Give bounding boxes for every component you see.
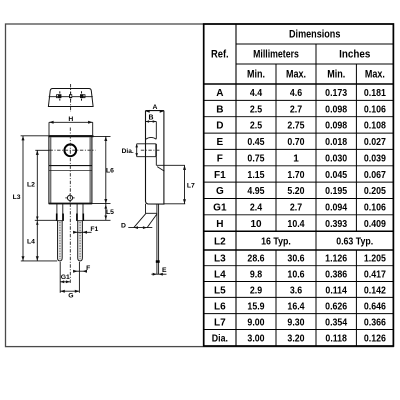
svg-text:4.95: 4.95 bbox=[247, 186, 265, 197]
svg-text:0.393: 0.393 bbox=[325, 219, 347, 230]
svg-text:15.9: 15.9 bbox=[247, 301, 265, 312]
front view inner edge lines bbox=[51, 137, 90, 203]
dimension H line bbox=[49, 121, 93, 135]
dimension L5 label bbox=[106, 209, 114, 216]
svg-text:2.5: 2.5 bbox=[250, 121, 263, 132]
svg-text:2.9: 2.9 bbox=[250, 285, 263, 296]
svg-text:4.4: 4.4 bbox=[250, 88, 263, 99]
table row G bbox=[216, 186, 386, 197]
svg-text:Dia.: Dia. bbox=[212, 334, 228, 345]
table column lines bbox=[276, 84, 356, 346]
svg-text:9.8: 9.8 bbox=[250, 269, 263, 280]
svg-text:Dia.: Dia. bbox=[122, 148, 134, 155]
top view body outline bbox=[48, 89, 93, 107]
svg-text:0.173: 0.173 bbox=[325, 88, 347, 99]
svg-text:1.205: 1.205 bbox=[364, 254, 386, 265]
svg-text:0.205: 0.205 bbox=[364, 186, 386, 197]
side view inner tab line upper bbox=[155, 122, 157, 139]
table header grid bbox=[204, 24, 394, 346]
dimension D label bbox=[121, 223, 126, 230]
svg-text:0.142: 0.142 bbox=[364, 285, 386, 296]
extension line shoulder right bbox=[84, 219, 111, 221]
svg-text:L7: L7 bbox=[214, 317, 226, 328]
svg-text:0.039: 0.039 bbox=[364, 153, 386, 164]
svg-text:0.118: 0.118 bbox=[325, 334, 347, 345]
table row lines bbox=[204, 100, 394, 329]
svg-text:Dimensions: Dimensions bbox=[289, 29, 340, 41]
dimension A label bbox=[152, 104, 157, 111]
svg-text:0.126: 0.126 bbox=[364, 334, 386, 345]
svg-text:30.6: 30.6 bbox=[287, 254, 305, 265]
dimension F label bbox=[86, 265, 90, 272]
svg-text:0.067: 0.067 bbox=[364, 170, 386, 181]
dimension G1 label bbox=[61, 274, 70, 281]
dimension G label bbox=[68, 293, 73, 300]
dimension L7 line bbox=[183, 165, 186, 204]
svg-text:1.126: 1.126 bbox=[325, 254, 347, 265]
svg-text:L3: L3 bbox=[214, 254, 226, 265]
svg-text:4.6: 4.6 bbox=[290, 88, 303, 99]
svg-text:0.098: 0.098 bbox=[325, 104, 347, 115]
svg-text:E: E bbox=[162, 267, 167, 274]
svg-text:L4: L4 bbox=[214, 269, 226, 280]
svg-text:0.626: 0.626 bbox=[325, 301, 347, 312]
svg-text:L2: L2 bbox=[27, 181, 35, 188]
right lead bbox=[76, 204, 84, 261]
side view body outline bbox=[146, 111, 164, 205]
svg-text:0.386: 0.386 bbox=[325, 269, 347, 280]
svg-text:L5: L5 bbox=[106, 209, 114, 216]
svg-text:2.7: 2.7 bbox=[290, 104, 303, 115]
svg-text:0.646: 0.646 bbox=[364, 301, 386, 312]
svg-text:16 Typ.: 16 Typ. bbox=[261, 236, 291, 247]
side view pedestal bbox=[146, 204, 157, 214]
svg-text:L6: L6 bbox=[214, 301, 226, 312]
front view tab boundary lines bbox=[49, 166, 92, 171]
border frame bbox=[6, 24, 394, 347]
svg-text:A: A bbox=[152, 104, 157, 111]
svg-text:L7: L7 bbox=[187, 182, 195, 189]
table row B bbox=[216, 104, 386, 115]
dimension E line bbox=[151, 273, 166, 276]
svg-text:Ref.: Ref. bbox=[211, 49, 229, 61]
dimension D line bbox=[128, 226, 152, 229]
side view step chamfer bbox=[157, 167, 164, 172]
svg-text:H: H bbox=[216, 219, 223, 230]
table row F1 bbox=[214, 170, 386, 181]
hole horizontal center line bbox=[50, 149, 96, 151]
svg-text:L5: L5 bbox=[214, 285, 226, 296]
svg-text:10.4: 10.4 bbox=[287, 219, 305, 230]
table row D bbox=[216, 121, 386, 132]
svg-text:E: E bbox=[217, 137, 224, 148]
svg-text:9.30: 9.30 bbox=[287, 317, 305, 328]
dimension L7 label bbox=[187, 182, 195, 189]
extension line body top right bbox=[94, 135, 111, 137]
svg-text:0.75: 0.75 bbox=[247, 153, 265, 164]
middle lead (side view) bbox=[156, 204, 160, 274]
svg-text:0.366: 0.366 bbox=[364, 317, 386, 328]
svg-text:G1: G1 bbox=[61, 274, 70, 281]
svg-text:B: B bbox=[216, 104, 223, 115]
svg-text:3.6: 3.6 bbox=[290, 285, 303, 296]
svg-text:2.7: 2.7 bbox=[290, 202, 303, 213]
svg-text:F1: F1 bbox=[214, 170, 226, 181]
svg-text:0.181: 0.181 bbox=[364, 88, 386, 99]
side view hole center line bbox=[141, 149, 160, 151]
dimension L6 line bbox=[104, 136, 107, 203]
dimension A line bbox=[146, 110, 164, 113]
svg-text:0.409: 0.409 bbox=[364, 219, 386, 230]
ejector mark circle bbox=[65, 194, 74, 203]
table row L2 bbox=[214, 236, 373, 247]
side view step line bbox=[156, 164, 185, 166]
table outer border bbox=[204, 24, 394, 346]
svg-text:L6: L6 bbox=[106, 167, 114, 174]
dimension L5 line bbox=[104, 204, 107, 221]
dimension Dia line bbox=[135, 144, 138, 157]
dimension G1 line bbox=[60, 280, 70, 283]
svg-text:Millimeters: Millimeters bbox=[253, 49, 299, 61]
extension line G right bbox=[78, 262, 80, 293]
dimension L2 label bbox=[27, 181, 35, 188]
svg-text:D: D bbox=[216, 121, 223, 132]
table row A bbox=[216, 88, 386, 99]
dimension F1 line bbox=[73, 231, 91, 234]
svg-text:0.106: 0.106 bbox=[364, 104, 386, 115]
svg-text:0.114: 0.114 bbox=[325, 285, 347, 296]
svg-text:0.030: 0.030 bbox=[325, 153, 347, 164]
svg-text:0.195: 0.195 bbox=[325, 186, 347, 197]
dimension Dia label bbox=[122, 148, 134, 155]
svg-text:10.6: 10.6 bbox=[287, 269, 305, 280]
svg-text:0.70: 0.70 bbox=[287, 137, 305, 148]
table row F bbox=[217, 153, 386, 164]
dimension F line bbox=[73, 270, 87, 273]
svg-text:D: D bbox=[121, 223, 126, 230]
svg-text:0.106: 0.106 bbox=[364, 202, 386, 213]
svg-text:0.354: 0.354 bbox=[325, 317, 347, 328]
top view lead line bbox=[49, 96, 93, 98]
svg-text:0.094: 0.094 bbox=[325, 202, 347, 213]
svg-text:0.63 Typ.: 0.63 Typ. bbox=[336, 236, 373, 247]
svg-text:1: 1 bbox=[293, 153, 299, 164]
svg-text:2.4: 2.4 bbox=[250, 202, 263, 213]
svg-text:0.045: 0.045 bbox=[325, 170, 347, 181]
side view hole band bbox=[137, 144, 156, 157]
dimension B label bbox=[149, 114, 154, 121]
svg-text:Max.: Max. bbox=[365, 69, 385, 81]
table row H bbox=[216, 219, 386, 230]
svg-text:10: 10 bbox=[250, 219, 262, 230]
svg-text:3.00: 3.00 bbox=[247, 334, 265, 345]
table row L7 bbox=[214, 317, 386, 328]
pin 3 (top view) bbox=[80, 91, 85, 100]
table row Dia. bbox=[212, 334, 387, 345]
svg-text:1.15: 1.15 bbox=[247, 170, 265, 181]
svg-text:0.45: 0.45 bbox=[247, 137, 265, 148]
side view inner tab line lower bbox=[155, 157, 157, 166]
dimension L4 label bbox=[27, 239, 35, 246]
svg-text:L3: L3 bbox=[13, 194, 21, 201]
table row L4 bbox=[214, 269, 386, 280]
extension line body bottom right bbox=[92, 203, 111, 205]
table row G1 bbox=[213, 202, 386, 213]
extension line lead end left bbox=[21, 260, 57, 262]
extension line side bottom bbox=[164, 203, 185, 205]
dimension L4 line bbox=[36, 220, 39, 261]
svg-text:2.5: 2.5 bbox=[250, 104, 263, 115]
svg-text:Inches: Inches bbox=[339, 49, 370, 61]
svg-text:F: F bbox=[217, 153, 223, 164]
dimension F1 label bbox=[90, 226, 98, 233]
table row L3 bbox=[214, 254, 386, 265]
svg-text:L2: L2 bbox=[214, 236, 226, 247]
pin 2 (top view) bbox=[69, 92, 72, 101]
svg-text:28.6: 28.6 bbox=[247, 254, 265, 265]
extension line hole center left bbox=[35, 149, 49, 151]
mounting hole bbox=[64, 144, 76, 156]
dimension L3 line bbox=[22, 136, 25, 261]
svg-text:G: G bbox=[68, 293, 73, 300]
top view center line bbox=[70, 84, 72, 112]
extension line shoulder left bbox=[35, 219, 57, 221]
table row L5 bbox=[214, 285, 386, 296]
dimension B line bbox=[146, 120, 157, 123]
front view body outline bbox=[48, 136, 93, 204]
pin 1 (top view) bbox=[57, 91, 62, 100]
dimension E label bbox=[162, 267, 167, 274]
svg-text:H: H bbox=[68, 116, 73, 123]
dimension D slant extensions bbox=[134, 213, 157, 227]
dimension L3 label bbox=[13, 194, 21, 201]
svg-text:0.027: 0.027 bbox=[364, 137, 386, 148]
table row E bbox=[217, 137, 387, 148]
svg-text:F: F bbox=[86, 265, 90, 272]
svg-text:0.098: 0.098 bbox=[325, 121, 347, 132]
svg-text:3.20: 3.20 bbox=[287, 334, 305, 345]
svg-text:0.108: 0.108 bbox=[364, 121, 386, 132]
svg-text:16.4: 16.4 bbox=[287, 301, 305, 312]
svg-text:G1: G1 bbox=[213, 202, 227, 213]
dimension L6 label bbox=[106, 167, 114, 174]
svg-text:Min.: Min. bbox=[327, 69, 345, 81]
extension line G1 left bbox=[59, 262, 61, 293]
table header text bbox=[211, 29, 385, 81]
front view vertical center line bbox=[69, 128, 71, 285]
side view boss arc bbox=[146, 137, 157, 139]
svg-text:2.75: 2.75 bbox=[287, 121, 305, 132]
dimension H label bbox=[68, 116, 73, 123]
table row L6 bbox=[214, 301, 386, 312]
svg-text:0.018: 0.018 bbox=[325, 137, 347, 148]
svg-text:1.70: 1.70 bbox=[287, 170, 305, 181]
left lead bbox=[56, 204, 64, 261]
svg-text:Max.: Max. bbox=[286, 69, 306, 81]
svg-text:F1: F1 bbox=[90, 226, 98, 233]
svg-text:G: G bbox=[216, 186, 224, 197]
svg-text:L4: L4 bbox=[27, 239, 35, 246]
svg-text:9.00: 9.00 bbox=[247, 317, 265, 328]
extension line body top left bbox=[21, 135, 49, 137]
svg-text:A: A bbox=[216, 88, 223, 99]
svg-text:5.20: 5.20 bbox=[287, 186, 305, 197]
dimension G line bbox=[60, 290, 79, 293]
dimension L2 line bbox=[36, 150, 39, 220]
svg-text:0.417: 0.417 bbox=[364, 269, 386, 280]
svg-text:Min.: Min. bbox=[247, 69, 265, 81]
